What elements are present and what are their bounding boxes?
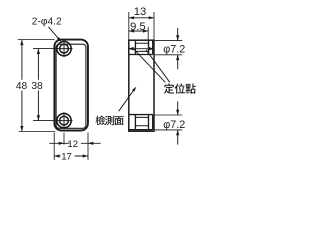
svg-text:9.5: 9.5 [130, 21, 146, 33]
svg-text:17: 17 [61, 151, 72, 162]
svg-text:2-φ4.2: 2-φ4.2 [32, 17, 62, 28]
svg-text:φ7.2: φ7.2 [163, 43, 185, 55]
svg-text:38: 38 [31, 81, 43, 92]
svg-text:φ7.2: φ7.2 [163, 119, 185, 131]
svg-text:48: 48 [16, 81, 28, 92]
svg-text:13: 13 [134, 6, 146, 18]
svg-text:12: 12 [67, 139, 78, 150]
